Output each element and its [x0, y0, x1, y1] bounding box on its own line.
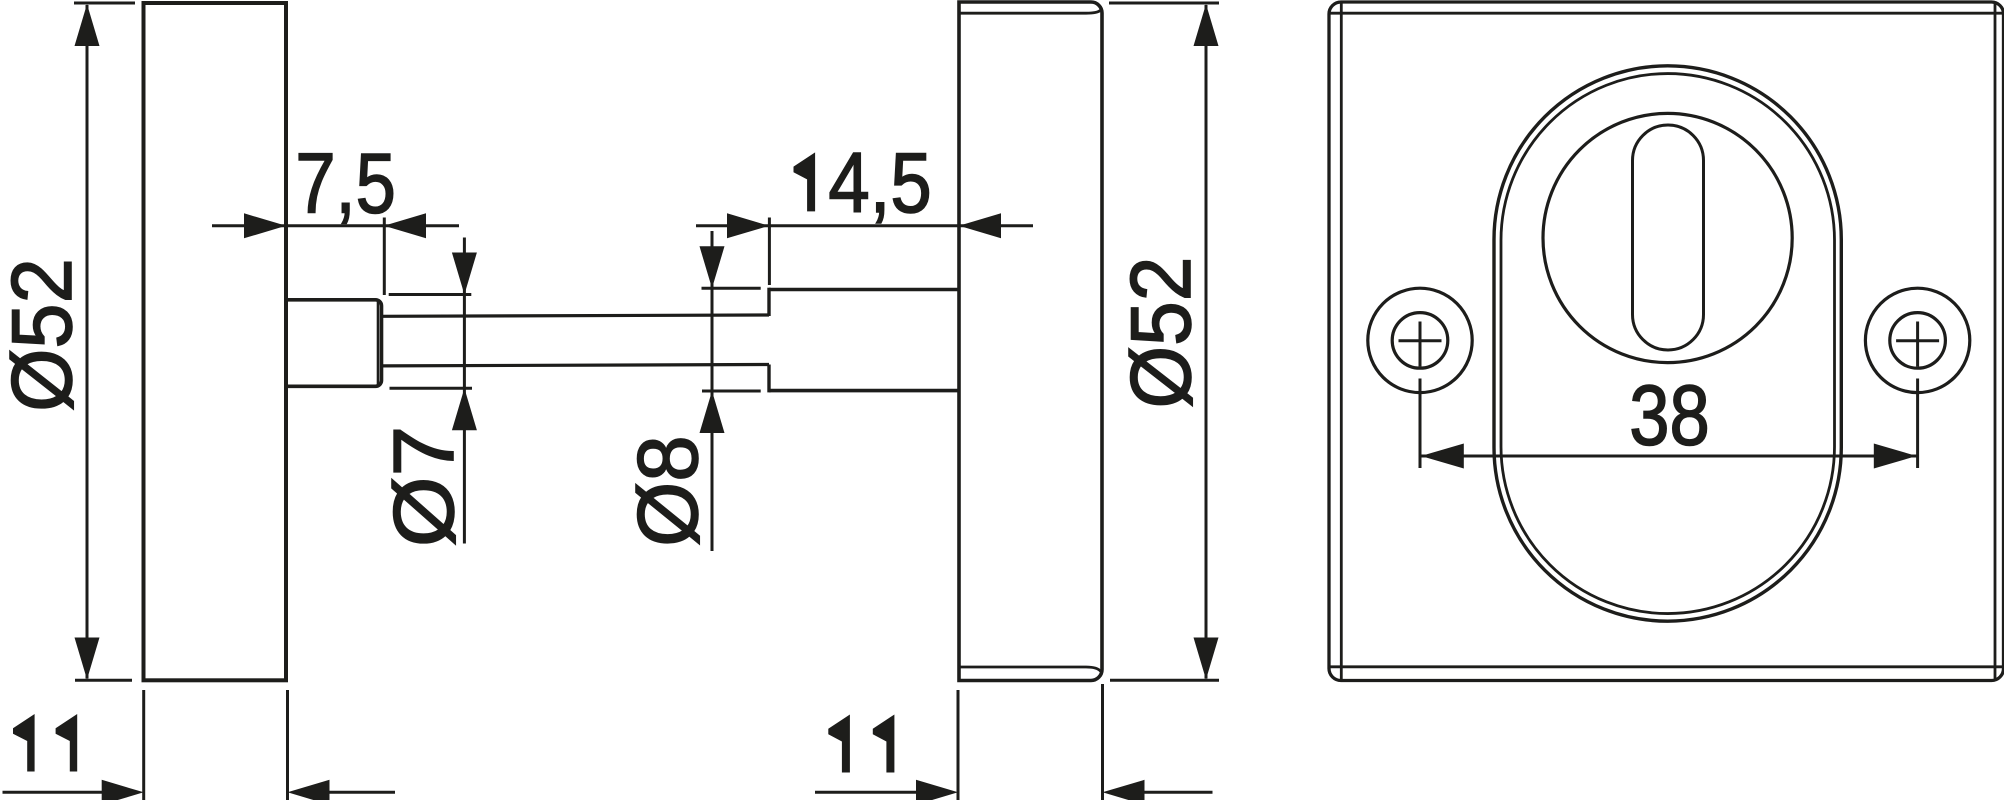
arrow down [700, 246, 725, 288]
leader right [1916, 379, 1919, 469]
tick top [702, 287, 761, 290]
spindle rod top [382, 315, 769, 316]
left neck [286, 300, 382, 387]
dim line [86, 5, 89, 679]
label 11 left [13, 714, 35, 772]
oval outer [1494, 66, 1841, 621]
left neck face line [377, 302, 380, 385]
plate inner vertical right [1994, 2, 1997, 681]
dim line [1205, 5, 1208, 679]
right rosette inner bottom face line [959, 667, 1101, 672]
arrow up [75, 4, 100, 46]
arrow right (tip at rosette edge) [244, 213, 286, 238]
screw right inner [1890, 313, 1946, 369]
ext top [74, 2, 135, 5]
svg-text:Ø8: Ø8 [620, 435, 715, 546]
cylinder circle [1543, 113, 1792, 362]
ext top [1109, 2, 1219, 5]
screw left cross horizontal [1399, 339, 1442, 342]
arrow right [916, 780, 958, 800]
arrow up [700, 391, 725, 433]
tick bottom [390, 387, 473, 390]
svg-text:Ø7: Ø7 [376, 426, 472, 547]
ext left [957, 690, 960, 800]
right neck left face upper [767, 288, 770, 316]
arrow up [1194, 4, 1219, 46]
dim line [463, 238, 466, 544]
arrow right [102, 780, 144, 800]
screw left outer [1368, 288, 1472, 392]
label 14,5 [794, 152, 816, 211]
label 11 right glyph2 [873, 715, 895, 773]
dim tail left [3, 791, 103, 794]
dim line [696, 224, 1033, 227]
plate outer [1329, 2, 2004, 681]
screw left inner [1392, 313, 1448, 369]
tick bottom [702, 390, 761, 393]
ext bottom [75, 679, 132, 682]
oval inner [1501, 74, 1835, 614]
ext right [286, 690, 289, 800]
ext left [142, 690, 145, 800]
arrow down [1194, 638, 1219, 680]
screw right cross vertical [1916, 322, 1919, 367]
right neck left face lower [767, 365, 770, 393]
svg-text:Ø52: Ø52 [0, 258, 89, 412]
right rosette outer [959, 2, 1102, 681]
label 11 left glyph2 [56, 714, 78, 772]
dim tail right [1144, 791, 1213, 794]
arrow right [1874, 444, 1917, 469]
key slot [1633, 125, 1704, 350]
ext bottom [1110, 679, 1219, 682]
arrow down [75, 638, 100, 680]
right rosette inner top face line [959, 10, 1101, 13]
plate inner vertical left [1340, 2, 1343, 681]
arrow left [1421, 444, 1464, 469]
arrow down [452, 253, 477, 295]
ext line neck face [768, 218, 771, 286]
spindle rod bottom [382, 365, 769, 366]
right neck bottom [769, 389, 959, 393]
arrow left (tip at rosette edge) [959, 213, 1001, 238]
arrow right (tip at neck left face) [727, 213, 769, 238]
screw left cross vertical [1419, 322, 1422, 367]
svg-text:Ø52: Ø52 [1113, 257, 1209, 409]
ext line neck end [383, 218, 386, 296]
right neck top [769, 288, 959, 292]
svg-text:4,5: 4,5 [828, 135, 931, 230]
leader left [1419, 379, 1422, 469]
arrow left (tip at neck end ext) [384, 213, 426, 238]
plate inner horizontal top [1329, 12, 2004, 15]
dim line [711, 231, 714, 551]
svg-text:7,5: 7,5 [295, 136, 396, 231]
ext right [1101, 684, 1104, 800]
label 11 right [828, 715, 850, 773]
dim line [212, 224, 459, 227]
arrow up [452, 388, 477, 430]
svg-text:38: 38 [1629, 368, 1709, 463]
dim line [1420, 455, 1918, 458]
screw right outer [1865, 288, 1969, 392]
left rosette rect [144, 3, 287, 680]
tick top [389, 293, 472, 296]
screw right cross horizontal [1896, 339, 1939, 342]
plate inner horizontal bottom [1329, 665, 2004, 668]
arrow left [1103, 780, 1145, 800]
arrow left [288, 780, 330, 800]
dim tail left [815, 791, 917, 794]
dim tail right [329, 791, 395, 794]
